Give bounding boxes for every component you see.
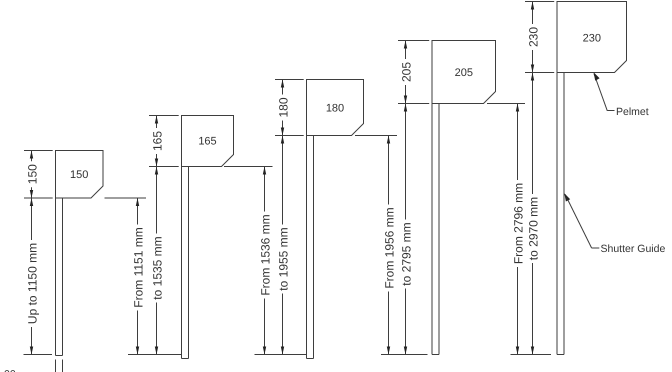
dimension "165" pelmet height and "to 1535 mm" xyxy=(150,116,164,355)
svg-text:180: 180 xyxy=(276,97,290,117)
svg-text:180: 180 xyxy=(326,103,344,115)
svg-text:to 2970 mm: to 2970 mm xyxy=(526,197,540,260)
leader arrow to Pelmet xyxy=(594,72,615,111)
floor line under assembly 205 xyxy=(381,354,428,356)
svg-text:205: 205 xyxy=(455,67,473,79)
svg-text:205: 205 xyxy=(399,62,413,82)
pelmet box 230 xyxy=(557,2,627,73)
svg-text:150: 150 xyxy=(25,164,39,184)
shutter guide 2 (below 165 pelmet) xyxy=(182,167,189,359)
shutter guide 1 (below 150 pelmet) xyxy=(56,198,63,372)
label Shutter Guide xyxy=(601,243,666,255)
extension line right of pelmet 165 xyxy=(224,166,273,168)
pelmet box 180 xyxy=(307,80,364,136)
svg-text:165: 165 xyxy=(198,136,216,148)
pelmet box 205 xyxy=(432,41,496,104)
extension line at bottom of pelmet 150 (left) xyxy=(24,197,53,199)
extension line right of pelmet 150 xyxy=(105,197,147,199)
dimension "150" pelmet height and "Up to 1150 mm" xyxy=(25,151,39,355)
pelmet size label 230 xyxy=(583,33,601,45)
extension line at bottom of pelmet 230 (left) xyxy=(525,72,554,74)
svg-text:150: 150 xyxy=(70,169,88,181)
svg-text:230: 230 xyxy=(526,27,540,47)
floor line under assembly 230 xyxy=(511,354,552,356)
svg-text:From 1956 mm: From 1956 mm xyxy=(382,207,396,288)
svg-text:Pelmet: Pelmet xyxy=(616,106,649,118)
extension line at top of pelmet 150 xyxy=(24,150,53,152)
svg-text:230: 230 xyxy=(583,33,601,45)
extension line at top of pelmet 205 xyxy=(398,40,429,42)
extension line right of pelmet 180 xyxy=(355,135,397,137)
svg-text:22: 22 xyxy=(4,369,16,372)
shutter guide 4 (below 205 pelmet) xyxy=(432,104,439,355)
dimension "From 1151 mm" xyxy=(131,198,145,355)
pelmet box 150 xyxy=(56,151,104,199)
pelmet size label 180 xyxy=(326,103,344,115)
extension line at bottom of pelmet 180 (left) xyxy=(275,135,304,137)
cropped text 22 (bottom left) xyxy=(4,369,16,372)
pelmet size label 205 xyxy=(455,67,473,79)
dimension "From 2796 mm" xyxy=(511,104,525,355)
dimension "From 1536 mm" xyxy=(258,167,272,355)
pelmet box 165 xyxy=(182,116,234,167)
svg-text:From 2796 mm: From 2796 mm xyxy=(511,183,525,264)
extension line at top of pelmet 180 xyxy=(275,79,304,81)
dimension "180" pelmet height and "to 1955 mm" xyxy=(276,80,290,355)
shutter guide 5 (below 230 pelmet) xyxy=(557,73,564,355)
svg-text:165: 165 xyxy=(150,131,164,151)
extension line at bottom of pelmet 165 (left) xyxy=(149,166,179,168)
svg-text:to 1955 mm: to 1955 mm xyxy=(276,227,290,290)
leader arrow to Shutter Guide xyxy=(564,193,599,248)
svg-text:Shutter Guide: Shutter Guide xyxy=(601,243,666,255)
pelmet size label 165 xyxy=(198,136,216,148)
svg-text:From 1536 mm: From 1536 mm xyxy=(258,214,272,295)
svg-text:From 1151 mm: From 1151 mm xyxy=(131,227,145,307)
shutter guide 3 (below 180 pelmet) xyxy=(307,136,314,359)
dimension "From 1956 mm" xyxy=(382,136,396,355)
label Pelmet xyxy=(616,106,649,118)
pelmet size label 150 xyxy=(70,169,88,181)
floor line under assembly 150 xyxy=(24,354,53,356)
extension line at top of pelmet 230 xyxy=(525,1,554,3)
extension line right of pelmet 205 xyxy=(487,103,525,105)
extension line at top of pelmet 165 xyxy=(149,115,179,117)
svg-text:to 2795 mm: to 2795 mm xyxy=(399,222,413,285)
dimension "230" pelmet height and "to 2970 mm" xyxy=(526,2,540,355)
dimension "205" pelmet height and "to 2795 mm" xyxy=(399,41,413,355)
extension line at bottom of pelmet 205 (left) xyxy=(398,103,429,105)
floor line under assembly 165 xyxy=(128,354,182,356)
svg-text:Up to 1150 mm: Up to 1150 mm xyxy=(25,243,39,324)
svg-text:to 1535 mm: to 1535 mm xyxy=(150,236,164,299)
floor line under assembly 180 xyxy=(255,354,307,356)
